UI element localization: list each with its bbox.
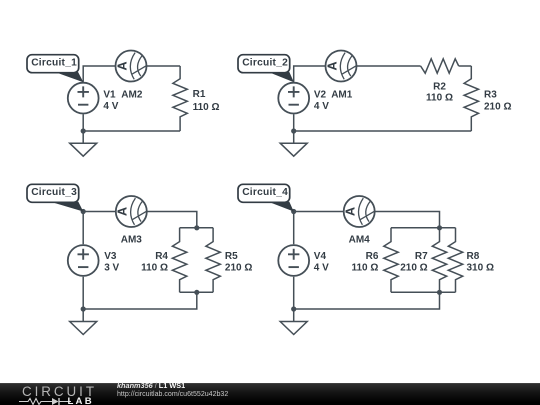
junction dot xyxy=(194,290,199,295)
svg-text:4 V: 4 V xyxy=(314,263,329,274)
svg-text:4 V: 4 V xyxy=(314,101,329,112)
svg-text:A: A xyxy=(344,207,358,216)
svg-text:Circuit_4: Circuit_4 xyxy=(242,187,288,198)
ground xyxy=(280,143,307,156)
resistor R2 xyxy=(421,59,459,73)
wire xyxy=(391,291,456,293)
svg-text:Circuit_3: Circuit_3 xyxy=(31,187,77,198)
voltage source V3 xyxy=(68,245,99,276)
wire xyxy=(180,227,214,229)
svg-text:110 Ω: 110 Ω xyxy=(141,263,168,274)
ammeter AM3 xyxy=(116,196,147,227)
CircuitLab logo text CIRCUIT xyxy=(22,385,97,398)
svg-text:R6: R6 xyxy=(366,251,379,262)
junction dot xyxy=(437,225,442,230)
svg-text:AM3: AM3 xyxy=(121,235,143,246)
junction dot xyxy=(291,306,296,311)
svg-text:V3: V3 xyxy=(104,251,117,262)
svg-text:110 Ω: 110 Ω xyxy=(426,92,453,103)
svg-text:3 V: 3 V xyxy=(104,263,119,274)
svg-text:AM4: AM4 xyxy=(349,235,371,246)
svg-text:R5: R5 xyxy=(225,251,238,262)
ground xyxy=(70,322,97,335)
svg-text:A: A xyxy=(116,207,130,216)
wire xyxy=(294,212,440,245)
svg-text:210 Ω: 210 Ω xyxy=(225,263,252,274)
resistor R7 xyxy=(432,228,446,292)
wire xyxy=(391,227,456,229)
junction dot xyxy=(194,225,199,230)
junction dot xyxy=(81,128,86,133)
svg-text:R2: R2 xyxy=(433,82,446,93)
resistor R5 xyxy=(206,228,220,292)
wire xyxy=(459,65,472,67)
svg-text:210 Ω: 210 Ω xyxy=(400,263,427,274)
voltage source V1 xyxy=(68,83,99,114)
footer meta line 1 xyxy=(117,382,185,389)
node label callout Circuit_2 xyxy=(238,55,294,83)
svg-text:AM1: AM1 xyxy=(331,89,353,100)
node label callout Circuit_1 xyxy=(27,55,83,83)
resistor R3 xyxy=(464,66,478,131)
wire xyxy=(83,66,180,82)
junction dot xyxy=(291,209,296,214)
node label callout Circuit_4 xyxy=(238,184,294,211)
CircuitLab logo mini schematic (resistor + diode) xyxy=(19,397,71,405)
footer meta line 2 xyxy=(117,391,228,398)
wire xyxy=(294,277,440,322)
svg-text:R7: R7 xyxy=(415,251,428,262)
svg-text:210 Ω: 210 Ω xyxy=(484,101,511,112)
node label callout Circuit_3 xyxy=(27,184,83,211)
svg-text:Circuit_1: Circuit_1 xyxy=(31,58,77,69)
ammeter AM2 xyxy=(115,51,146,82)
junction dot xyxy=(81,306,86,311)
wire xyxy=(294,114,472,143)
svg-text:A: A xyxy=(325,61,339,70)
svg-text:310 Ω: 310 Ω xyxy=(467,263,494,274)
ammeter AM1 xyxy=(325,51,356,82)
junction dot xyxy=(291,128,296,133)
junction dot xyxy=(81,209,86,214)
svg-text:V4: V4 xyxy=(314,251,327,262)
svg-text:V2: V2 xyxy=(314,89,327,100)
wire xyxy=(180,291,214,293)
wire xyxy=(83,277,197,322)
resistor R6 xyxy=(384,228,398,292)
svg-text:110 Ω: 110 Ω xyxy=(193,102,220,113)
ammeter AM4 xyxy=(344,196,375,227)
ground xyxy=(280,322,307,335)
svg-text:R4: R4 xyxy=(155,251,168,262)
svg-text:AM2: AM2 xyxy=(121,89,143,100)
svg-text:110 Ω: 110 Ω xyxy=(351,263,378,274)
CircuitLab logo text LAB xyxy=(68,397,94,405)
resistor R4 xyxy=(172,228,186,292)
voltage source V2 xyxy=(278,83,309,114)
svg-text:A: A xyxy=(115,61,129,70)
svg-text:Circuit_2: Circuit_2 xyxy=(242,58,288,69)
svg-text:R1: R1 xyxy=(193,89,206,100)
svg-text:V1: V1 xyxy=(103,89,116,100)
svg-text:R8: R8 xyxy=(467,251,480,262)
resistor R1 xyxy=(173,66,187,131)
wire xyxy=(83,114,180,143)
svg-text:4 V: 4 V xyxy=(103,101,118,112)
footer bar xyxy=(0,383,540,405)
voltage source V4 xyxy=(278,245,309,276)
junction dot xyxy=(437,290,442,295)
resistor R8 xyxy=(448,228,462,292)
wire xyxy=(83,212,197,245)
wire xyxy=(294,66,421,82)
ground xyxy=(70,143,97,156)
svg-text:R3: R3 xyxy=(484,89,497,100)
